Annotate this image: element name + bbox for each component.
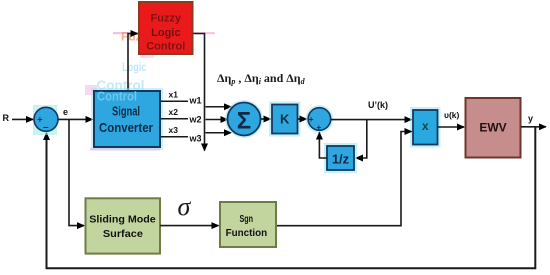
svg-text:x2: x2	[169, 107, 179, 117]
svg-text:w3: w3	[189, 134, 202, 144]
signal converter box	[94, 91, 160, 147]
svg-text:Surface: Surface	[103, 228, 143, 240]
wire branch down to 1/z	[356, 120, 367, 158]
wire: signal converter top to fuzzy logic control	[128, 34, 138, 92]
wire S2 output to x box	[331, 119, 412, 121]
wire x2	[161, 118, 188, 120]
svg-text:Logic: Logic	[151, 27, 180, 39]
svg-text:U’(k): U’(k)	[368, 100, 388, 110]
svg-text:Δηp , Δηi and Δηd: Δηp , Δηi and Δηd	[217, 71, 306, 86]
svg-text:Control: Control	[97, 90, 137, 104]
wire sigma to K	[261, 118, 271, 120]
ghost smudge magenta left of signal converter	[85, 85, 97, 95]
wire K to S2	[298, 118, 307, 120]
sigma summing circle halo	[225, 100, 263, 138]
1/z box halo	[324, 143, 357, 173]
svg-text:Fuzzy: Fuzzy	[151, 13, 182, 25]
svg-text:Signal: Signal	[112, 104, 140, 118]
svg-text:w1: w1	[189, 96, 202, 106]
wire x3	[161, 136, 188, 138]
wire: fuzzy output down crossing with arrow	[193, 34, 205, 151]
sigma summing circle	[228, 103, 261, 136]
ghost streak pink left of red box	[113, 32, 139, 34]
wire: R input arrow	[12, 118, 33, 120]
svg-text:Function: Function	[226, 227, 268, 239]
svg-text:Sgn: Sgn	[239, 213, 253, 225]
svg-text:y: y	[528, 113, 533, 123]
svg-text:x1: x1	[169, 90, 179, 100]
sgn function box	[220, 202, 276, 247]
ghost streak pink right of red box	[193, 32, 215, 34]
1/z delay box	[327, 146, 354, 170]
svg-text:σ: σ	[178, 192, 192, 221]
wire w1 into sigma	[206, 106, 232, 108]
svg-text:+: +	[317, 123, 322, 132]
summing circle S2 halo	[305, 105, 333, 133]
svg-text:+: +	[309, 115, 314, 124]
wire sgn output up into x box	[276, 132, 412, 226]
summing junction S1	[34, 107, 58, 131]
svg-text:w2: w2	[189, 115, 202, 125]
signal converter halo	[91, 88, 163, 150]
wire x box to EWV	[438, 126, 465, 128]
svg-text:Control: Control	[146, 40, 185, 52]
summing junction circle halo	[33, 105, 57, 135]
svg-text:–: –	[43, 122, 49, 133]
wire EWV output y	[521, 126, 546, 128]
wire: feedback bottom line	[47, 127, 536, 268]
wire 1/z back to S2	[319, 133, 327, 159]
wire x1	[161, 100, 188, 102]
svg-text:EWV: EWV	[479, 120, 506, 134]
svg-text:e: e	[63, 107, 68, 117]
svg-text:x: x	[422, 119, 429, 133]
wire SMS to Sgn	[160, 225, 219, 227]
svg-text:1/z: 1/z	[332, 152, 350, 167]
svg-text:K: K	[280, 112, 290, 127]
K box halo	[269, 102, 301, 137]
K gain box	[272, 105, 298, 134]
ghost streak pink under fuzzy box	[140, 55, 154, 58]
x multiplier box	[413, 110, 438, 145]
svg-text:R: R	[3, 113, 10, 123]
wire w3 into sigma	[206, 132, 232, 134]
summing circle S2	[308, 108, 331, 131]
svg-text:Sliding Mode: Sliding Mode	[89, 214, 156, 226]
svg-text:Σ: Σ	[237, 108, 251, 135]
svg-text:υ(k): υ(k)	[444, 110, 460, 120]
EWV plant box	[466, 98, 521, 158]
wire w2 into sigma	[206, 119, 228, 121]
svg-text:Logic: Logic	[122, 60, 147, 74]
wire: e branch down to sliding mode surface	[69, 119, 84, 225]
svg-text:+: +	[37, 115, 42, 125]
fuzzy logic control box	[139, 2, 193, 54]
x multiplier halo	[410, 107, 441, 148]
svg-text:x3: x3	[169, 125, 179, 135]
ghost streak pink under signal converter	[90, 148, 160, 151]
svg-text:Converter: Converter	[99, 121, 153, 135]
sliding mode surface box	[86, 198, 161, 253]
wire: e from S1 to Signal Converter	[58, 118, 92, 120]
